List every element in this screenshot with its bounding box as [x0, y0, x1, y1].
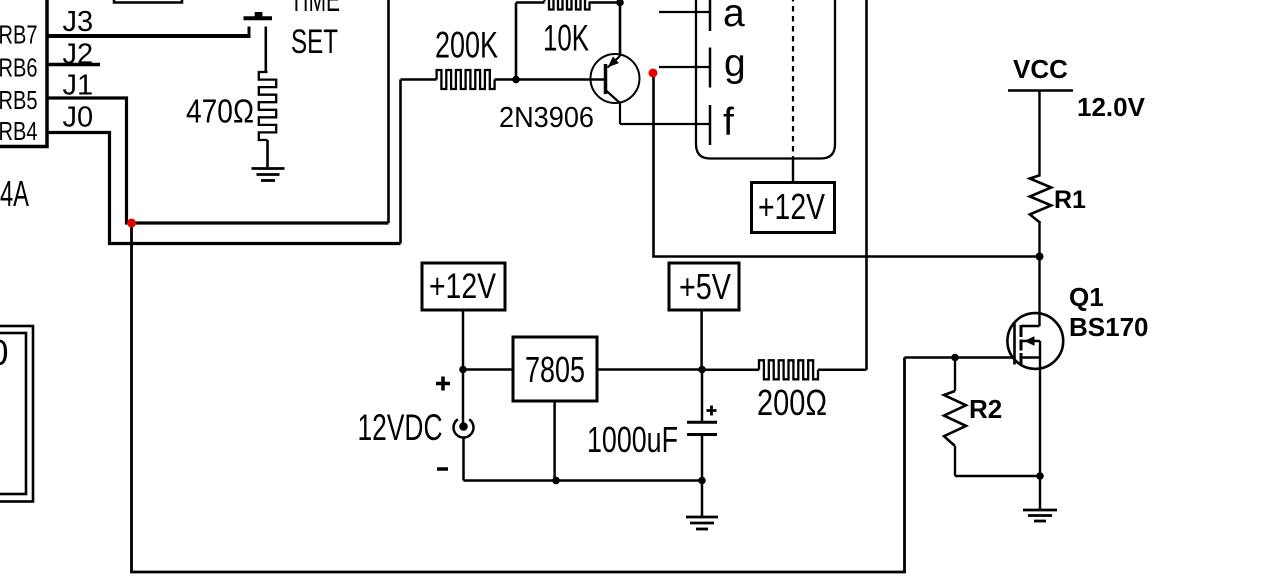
- svg-text:2N3906: 2N3906: [499, 102, 594, 134]
- svg-text:10K: 10K: [543, 18, 589, 59]
- svg-text:a: a: [723, 0, 745, 35]
- svg-text:J0: J0: [63, 102, 94, 134]
- svg-text:200Ω: 200Ω: [757, 382, 827, 423]
- svg-text:R2: R2: [969, 394, 1002, 424]
- svg-text:0: 0: [0, 332, 9, 373]
- svg-text:BS170: BS170: [1069, 312, 1149, 342]
- svg-text:f: f: [723, 101, 734, 144]
- svg-text:TIME: TIME: [290, 0, 340, 18]
- svg-text:12VDC: 12VDC: [358, 407, 443, 448]
- svg-text:g: g: [724, 42, 746, 85]
- svg-text:7805: 7805: [525, 349, 585, 390]
- svg-text:+5V: +5V: [679, 266, 731, 307]
- svg-text:1000uF: 1000uF: [587, 419, 678, 460]
- svg-text:J3: J3: [63, 6, 94, 38]
- svg-text:200K: 200K: [435, 25, 498, 66]
- svg-text:RB7: RB7: [0, 20, 38, 50]
- svg-text:R1: R1: [1054, 186, 1086, 214]
- svg-text:RB4: RB4: [0, 116, 38, 146]
- svg-text:VCC: VCC: [1013, 54, 1068, 84]
- svg-text:SET: SET: [291, 23, 338, 61]
- svg-text:12.0V: 12.0V: [1077, 92, 1146, 122]
- svg-text:Q1: Q1: [1069, 282, 1104, 312]
- svg-text:RB6: RB6: [0, 53, 38, 83]
- svg-text:+12V: +12V: [429, 267, 497, 306]
- svg-text:RB5: RB5: [0, 85, 38, 115]
- svg-text:4A: 4A: [0, 173, 29, 214]
- svg-text:+12V: +12V: [758, 186, 825, 227]
- svg-text:470Ω: 470Ω: [186, 93, 254, 130]
